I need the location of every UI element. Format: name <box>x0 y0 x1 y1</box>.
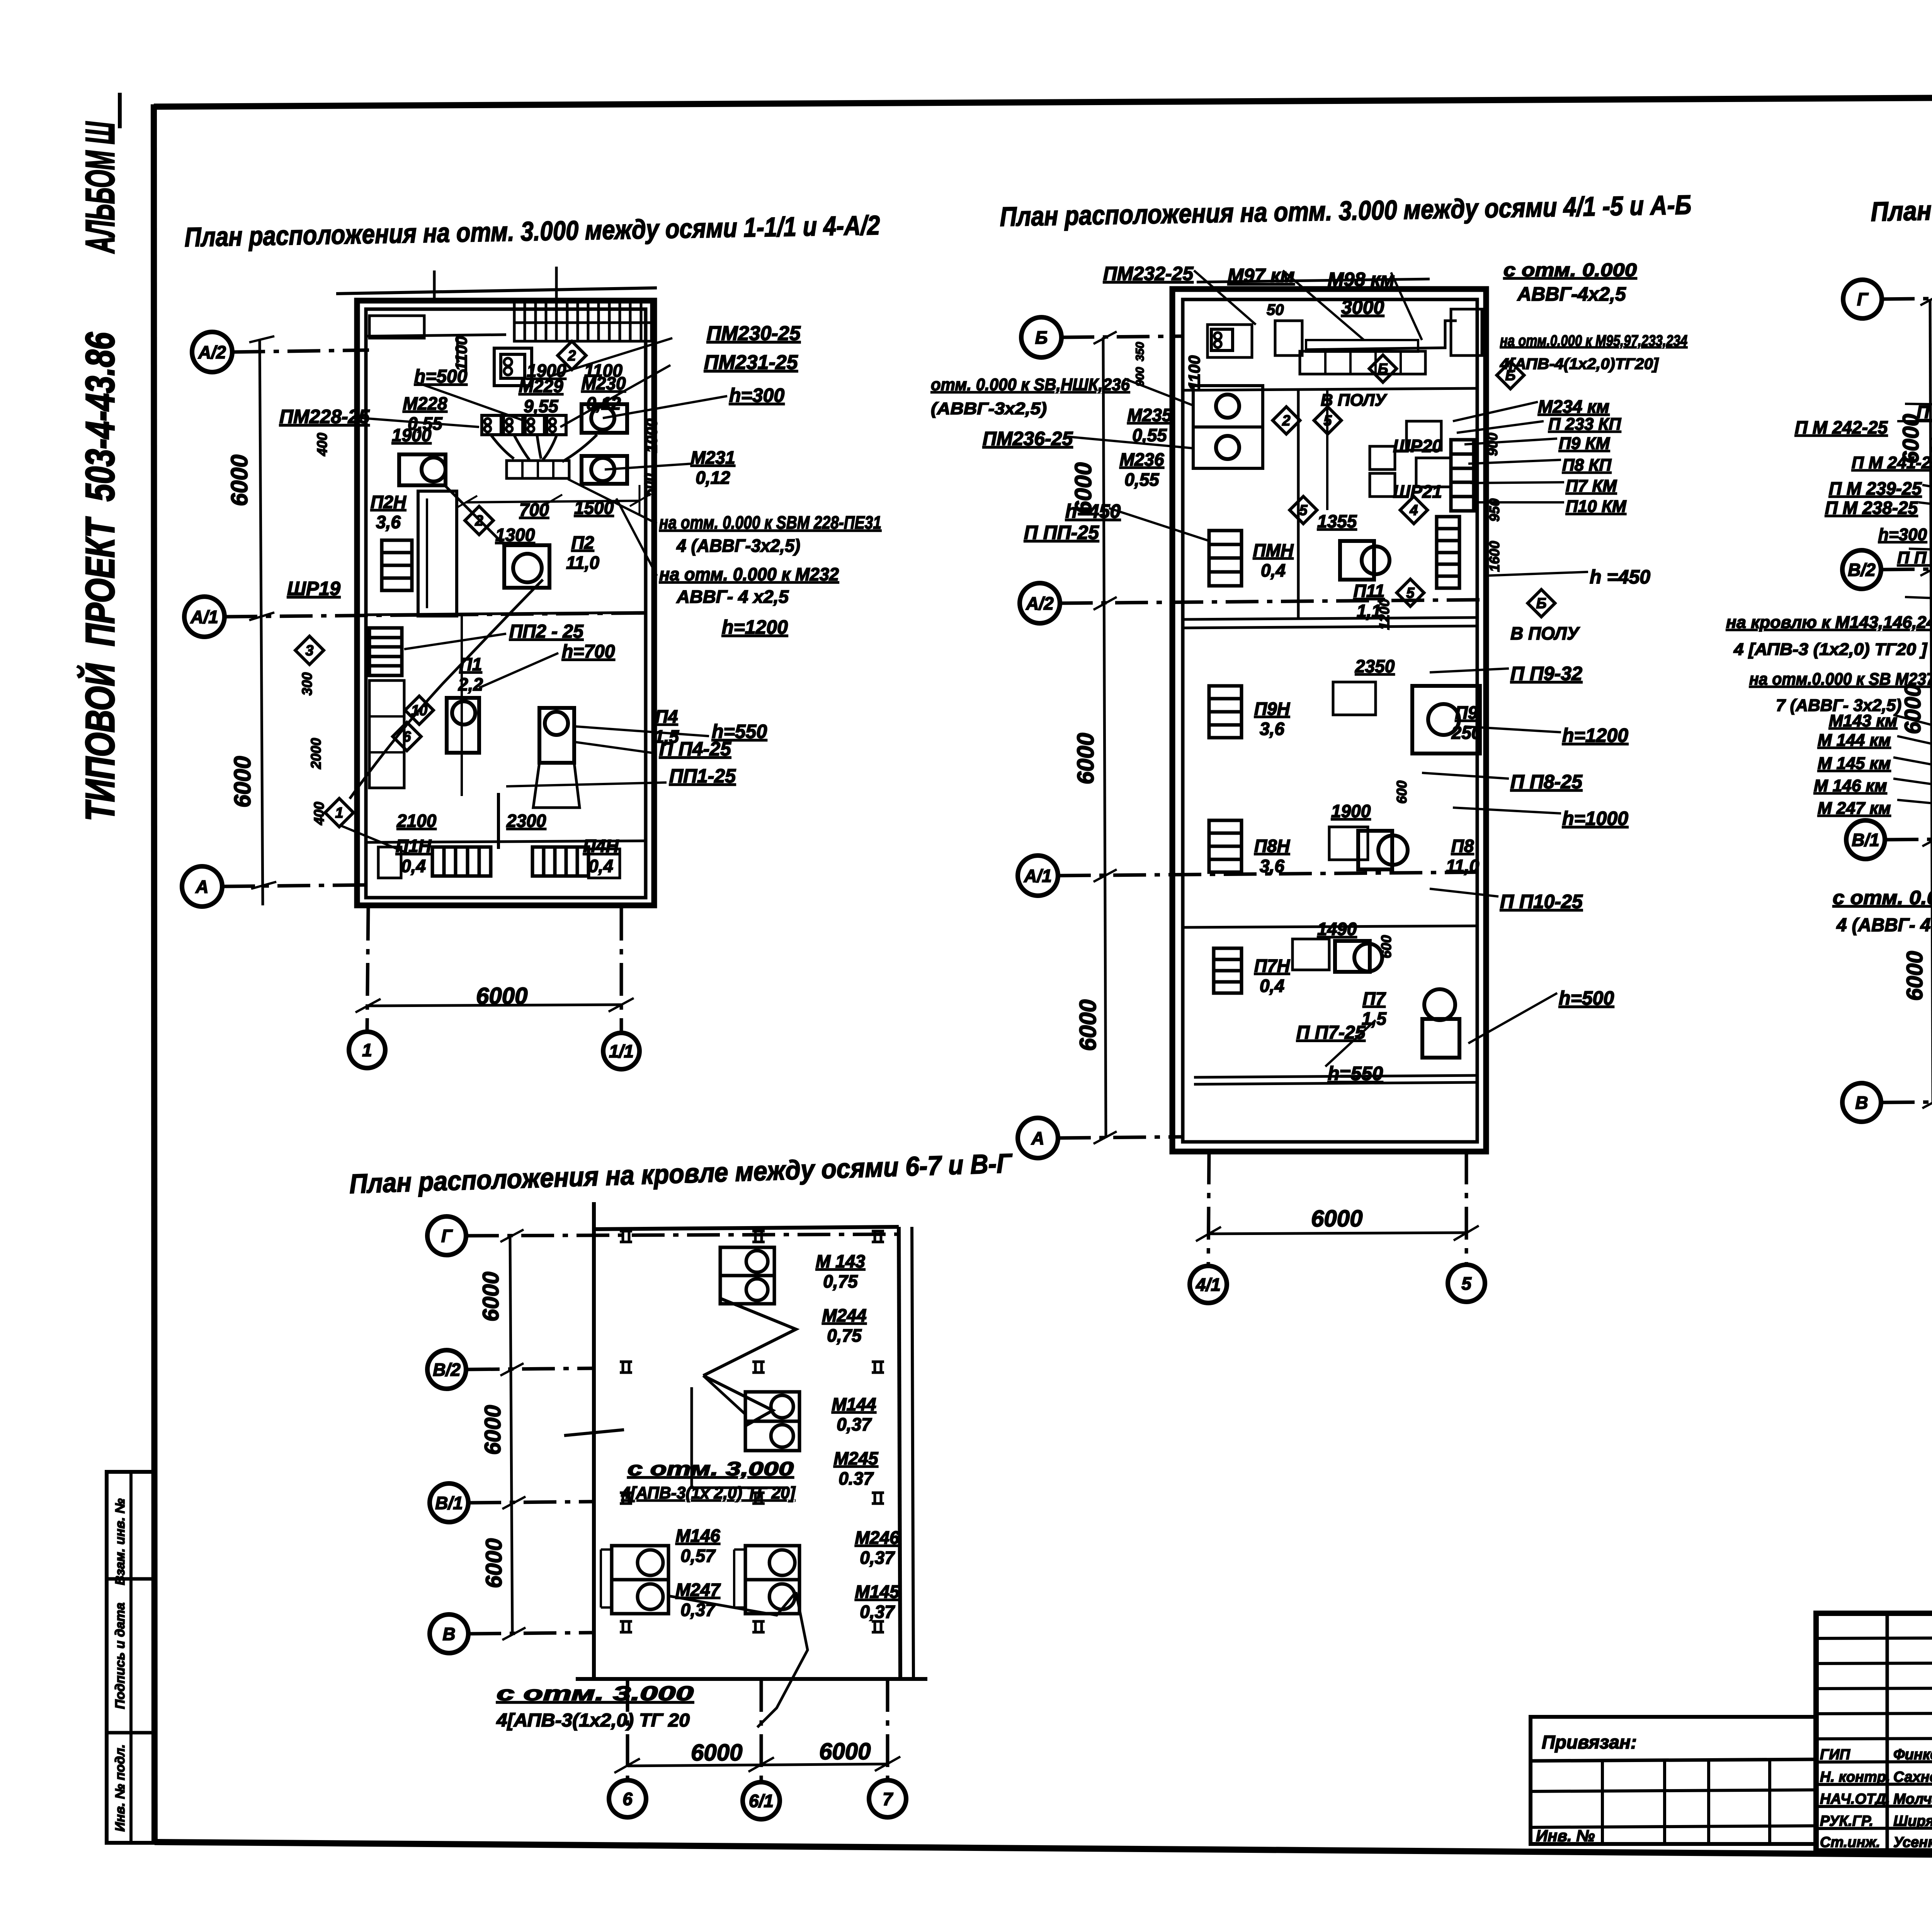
svg-text:600: 600 <box>1394 781 1410 804</box>
svg-text:1100: 1100 <box>452 336 470 371</box>
svg-text:М 247 км: М 247 км <box>1818 799 1891 818</box>
dim line vertical plan1 <box>260 340 263 905</box>
svg-text:План расположения на отм. 3.00: План расположения на отм. 3.000 между ос… <box>1000 190 1692 232</box>
svg-text:h=1200: h=1200 <box>722 616 788 638</box>
svg-text:0,55: 0,55 <box>1132 425 1167 445</box>
tb row line <box>1816 1784 1932 1784</box>
svg-text:М 144 км: М 144 км <box>1818 731 1891 750</box>
svg-text:300: 300 <box>299 672 315 696</box>
svg-text:2: 2 <box>567 348 576 364</box>
tb row line <box>1816 1828 1932 1829</box>
axis drop 7 roof <box>886 1679 889 1780</box>
axis circle A/2 <box>192 332 232 372</box>
roof anchor <box>620 1230 632 1233</box>
unit M231 <box>591 458 614 481</box>
axis line A p2 <box>1058 1137 1182 1138</box>
svg-text:4 [АПВ-3 (1х2,0) ТГ20 ]: 4 [АПВ-3 (1х2,0) ТГ20 ] <box>1733 640 1927 659</box>
inner wall p1 top <box>367 335 506 336</box>
right battery p2b <box>1437 517 1459 588</box>
axis drop 4/1 <box>1208 1152 1209 1267</box>
svg-text:6000: 6000 <box>1902 951 1927 1001</box>
svg-text:ПМ232-25: ПМ232-25 <box>1103 263 1194 284</box>
svg-text:Молчанова: Молчанова <box>1893 1791 1932 1807</box>
svg-text:П М 240-25: П М 240-25 <box>1917 402 1932 422</box>
svg-text:250: 250 <box>1451 723 1481 743</box>
roof anchor <box>620 1492 632 1494</box>
svg-text:0,4: 0,4 <box>1260 976 1284 996</box>
svg-text:900: 900 <box>1485 433 1500 456</box>
svg-text:11,0: 11,0 <box>1446 856 1480 876</box>
svg-text:Усенко: Усенко <box>1893 1834 1932 1851</box>
axis line A/1 p2 <box>1058 872 1486 876</box>
svg-text:1,5: 1,5 <box>1362 1009 1387 1029</box>
fan M228 <box>422 458 446 481</box>
svg-text:П М 241-25: П М 241-25 <box>1852 453 1932 472</box>
svg-text:6000: 6000 <box>1073 733 1099 784</box>
svg-text:1490: 1490 <box>1317 919 1357 939</box>
svg-text:В ПОЛУ: В ПОЛУ <box>1510 623 1580 643</box>
svg-text:1: 1 <box>362 1040 372 1060</box>
duct in floor <box>1300 351 1425 374</box>
roof bottom edge <box>576 1677 927 1681</box>
svg-text:с отм. 0.000: с отм. 0.000 <box>1833 887 1932 908</box>
svg-text:М144: М144 <box>832 1394 876 1414</box>
svg-text:Инв. № подл.: Инв. № подл. <box>113 1744 128 1832</box>
fan P9 <box>1428 704 1459 735</box>
svg-text:П8Н: П8Н <box>1254 836 1290 856</box>
svg-text:6000: 6000 <box>481 1538 507 1588</box>
svg-text:6: 6 <box>403 729 411 745</box>
svg-text:М234 км: М234 км <box>1538 396 1609 417</box>
bottom small box <box>378 847 401 878</box>
battery P8N <box>1209 820 1242 872</box>
roof anchor <box>752 1230 765 1233</box>
svg-text:П2Н: П2Н <box>371 492 406 512</box>
svg-text:М236: М236 <box>1119 449 1164 469</box>
svg-text:А/1: А/1 <box>1024 866 1052 886</box>
svg-text:М146: М146 <box>675 1526 720 1546</box>
tb row line <box>1816 1638 1932 1638</box>
axis circle 4/1 <box>1190 1266 1227 1303</box>
diamond 2 <box>558 341 586 370</box>
svg-text:П ПП-25: П ПП-25 <box>1024 522 1099 543</box>
svg-text:2: 2 <box>1282 413 1290 429</box>
roof anchor <box>752 1361 765 1363</box>
svg-text:АВВГ-4х2,5: АВВГ-4х2,5 <box>1517 283 1626 305</box>
svg-text:4[АПВ-3(1х2,0) ТГ 20: 4[АПВ-3(1х2,0) ТГ 20 <box>496 1710 690 1731</box>
axis circle V/2 <box>1842 550 1881 589</box>
unit M229 box <box>494 348 532 386</box>
svg-text:А/2: А/2 <box>1026 594 1054 614</box>
axis circle V <box>1842 1083 1881 1122</box>
plan1 wires <box>491 435 556 460</box>
axis line G roof <box>466 1234 900 1236</box>
svg-text:ШР21: ШР21 <box>1393 481 1442 502</box>
svg-text:1900: 1900 <box>1331 801 1371 821</box>
svg-text:(АВВГ-3х2,5): (АВВГ-3х2,5) <box>931 399 1047 418</box>
svg-text:950: 950 <box>1486 498 1502 522</box>
dim line bottom plan1 <box>368 1005 621 1006</box>
unit M230 <box>591 407 614 430</box>
svg-text:3,6: 3,6 <box>1260 719 1284 739</box>
svg-text:4[АПВ-4(1х2,0)ТГ20]: 4[АПВ-4(1х2,0)ТГ20] <box>1500 356 1659 373</box>
axis circle V/1 roof <box>430 1483 468 1522</box>
plan1 building outer walls <box>357 301 654 905</box>
frame left border <box>154 104 155 1842</box>
axis circle A/1 p2 <box>1018 856 1058 896</box>
svg-text:с отм. 0.000: с отм. 0.000 <box>1503 260 1637 281</box>
svg-text:4 (АВВГ- 4 х2,5): 4 (АВВГ- 4 х2,5) <box>1836 915 1932 936</box>
svg-text:500: 500 <box>641 473 657 497</box>
svg-text:П8: П8 <box>1451 836 1474 856</box>
fan P11 <box>1362 546 1389 574</box>
axis circle A/1 <box>184 597 224 637</box>
axis line B <box>1061 336 1182 337</box>
roof anchor <box>872 1492 884 1494</box>
svg-text:0,37: 0,37 <box>860 1548 895 1568</box>
roof anchor <box>620 1361 632 1363</box>
axis circle B <box>1021 317 1061 357</box>
svg-text:0,57: 0,57 <box>680 1546 716 1566</box>
svg-text:400: 400 <box>311 802 327 825</box>
dim line vertical roof <box>510 1236 512 1634</box>
svg-text:В: В <box>442 1624 455 1644</box>
axis line V roof <box>468 1633 595 1634</box>
svg-text:РУК.ГР.: РУК.ГР. <box>1820 1813 1873 1829</box>
svg-text:А/1: А/1 <box>190 607 218 627</box>
svg-text:АВВГ- 4 х2,5: АВВГ- 4 х2,5 <box>676 587 789 607</box>
svg-text:0,55: 0,55 <box>1124 469 1160 490</box>
svg-text:5: 5 <box>1461 1274 1472 1294</box>
stair comb plan1 <box>514 301 651 341</box>
svg-text:11,0: 11,0 <box>566 553 600 573</box>
tb row line <box>1816 1738 1932 1739</box>
tb row line <box>1816 1688 1932 1689</box>
svg-text:6000: 6000 <box>1075 1000 1101 1051</box>
svg-text:В ПОЛУ: В ПОЛУ <box>1321 391 1388 410</box>
right battery p2a <box>1451 440 1474 511</box>
left margin inventory strip <box>107 1472 155 1843</box>
svg-text:АЛЬБОМ Ш: АЛЬБОМ Ш <box>78 121 123 254</box>
svg-text:на отм.0.000 к М95,97,233,234: на отм.0.000 к М95,97,233,234 <box>1500 332 1687 349</box>
svg-text:П11: П11 <box>1354 581 1385 601</box>
top-left box p2 <box>1207 325 1252 357</box>
frame top border <box>154 95 1932 107</box>
svg-text:3,6: 3,6 <box>1260 856 1284 876</box>
ShR19 comb <box>369 628 402 675</box>
svg-text:ПМ228-25: ПМ228-25 <box>279 406 370 427</box>
dim line bottom p2 <box>1209 1233 1466 1234</box>
dim line bottom roof <box>628 1764 888 1766</box>
svg-text:h=1200: h=1200 <box>1562 725 1628 746</box>
partition at A/1 <box>366 612 646 615</box>
axis circle V/1 <box>1846 820 1885 859</box>
axis line V/1 <box>1886 839 1932 840</box>
roof right edge <box>899 1227 900 1679</box>
bus row <box>507 461 569 478</box>
privyazan outer <box>1531 1717 1816 1844</box>
unit M235 <box>1193 386 1263 427</box>
svg-text:6000: 6000 <box>691 1740 742 1766</box>
privyazan col 3 <box>1707 1761 1710 1844</box>
svg-text:0.37: 0.37 <box>838 1468 874 1488</box>
axis circle A <box>182 866 222 907</box>
svg-text:4/1: 4/1 <box>1196 1275 1221 1295</box>
axis line A <box>222 885 371 886</box>
terminal row <box>482 415 501 435</box>
axis circle 1/1 <box>603 1033 639 1069</box>
plan2 building outer walls <box>1172 289 1486 1152</box>
axis line V/2 <box>1882 566 1932 570</box>
svg-text:Г: Г <box>1857 289 1869 310</box>
roof top edge <box>594 1227 899 1229</box>
partition low <box>366 841 646 842</box>
axis line V/2 roof <box>467 1368 595 1369</box>
roof right edge 2 <box>912 1227 913 1679</box>
svg-text:6: 6 <box>622 1789 633 1809</box>
svg-text:h=300: h=300 <box>1878 525 1927 544</box>
axis drop 5 <box>1465 1152 1468 1266</box>
svg-text:В/1: В/1 <box>1852 830 1879 850</box>
svg-text:П7Н: П7Н <box>1254 956 1290 976</box>
privyazan col 4 <box>1768 1761 1771 1844</box>
svg-text:ГИП: ГИП <box>1820 1747 1850 1763</box>
leader PM228 <box>352 417 479 427</box>
svg-text:М 145 км: М 145 км <box>1818 754 1891 773</box>
battery P2N <box>382 540 412 590</box>
svg-text:6000: 6000 <box>478 1272 503 1322</box>
axis line V/1 roof <box>468 1502 595 1503</box>
svg-text:ПП1-25: ПП1-25 <box>669 765 736 787</box>
battery PMN <box>1209 531 1242 586</box>
svg-text:3: 3 <box>305 643 313 659</box>
privyazan row 2 <box>1531 1826 1816 1827</box>
svg-text:М228: М228 <box>403 393 447 413</box>
svg-text:П М 239-25: П М 239-25 <box>1829 478 1922 498</box>
svg-text:h=700: h=700 <box>562 641 615 662</box>
cabinet top-left <box>369 316 424 338</box>
svg-text:П7: П7 <box>1363 988 1386 1009</box>
axis circle 6 roof <box>609 1780 646 1817</box>
svg-text:П П8-25: П П8-25 <box>1510 771 1583 793</box>
svg-text:М 146 км: М 146 км <box>1814 776 1887 795</box>
svg-text:Б: Б <box>1378 361 1388 377</box>
svg-text:План расположения на отм. 3.00: План расположения на отм. 3.000 между ос… <box>184 210 880 252</box>
leader PM230 <box>549 338 672 377</box>
roof left edge <box>592 1202 596 1679</box>
svg-text:4: 4 <box>1409 502 1418 519</box>
svg-text:0,37: 0,37 <box>837 1414 872 1434</box>
svg-text:h=1000: h=1000 <box>1562 808 1628 829</box>
roof anchor <box>872 1620 884 1623</box>
svg-text:М230: М230 <box>581 373 626 393</box>
corner unit <box>1451 309 1482 356</box>
svg-text:Н. контр.: Н. контр. <box>1820 1769 1890 1785</box>
svg-text:5: 5 <box>1323 413 1332 429</box>
svg-text:на отм.0.000 к SВ М237+М243: на отм.0.000 к SВ М237+М243 <box>1749 670 1932 689</box>
axis line G <box>1882 298 1932 299</box>
svg-text:М235: М235 <box>1127 405 1172 425</box>
svg-text:350: 350 <box>1134 342 1146 361</box>
svg-text:0,12: 0,12 <box>696 468 730 488</box>
svg-text:М 143: М 143 <box>816 1251 865 1271</box>
fan P7 <box>1354 944 1382 971</box>
unit M236 <box>1193 427 1263 468</box>
svg-text:h=300: h=300 <box>729 384 784 406</box>
axis circle A p2 <box>1018 1118 1058 1158</box>
bottom comb 1 <box>432 847 491 876</box>
svg-text:П4: П4 <box>655 706 678 726</box>
roof line above <box>1197 279 1430 282</box>
axis circle G roof <box>427 1216 466 1255</box>
dim line room p1 <box>466 501 639 502</box>
axis circle 5 <box>1448 1265 1485 1302</box>
svg-text:Ст.инж.: Ст.инж. <box>1820 1834 1880 1851</box>
axis circle 1 <box>349 1032 385 1068</box>
svg-text:П10 КМ: П10 КМ <box>1566 497 1627 516</box>
svg-text:0,37: 0,37 <box>680 1600 716 1620</box>
svg-text:600: 600 <box>1378 935 1394 958</box>
svg-text:М247: М247 <box>675 1580 721 1600</box>
svg-text:6000: 6000 <box>819 1738 871 1764</box>
svg-text:П П7-25: П П7-25 <box>1296 1022 1366 1043</box>
axis drop 6/1 roof <box>760 1679 763 1782</box>
svg-text:Взам. инв. №: Взам. инв. № <box>113 1499 128 1585</box>
svg-text:2100: 2100 <box>396 811 437 831</box>
svg-text:1200: 1200 <box>1376 599 1392 630</box>
svg-text:0,4: 0,4 <box>588 856 613 876</box>
svg-text:М244: М244 <box>822 1305 866 1325</box>
ShR20 box <box>1406 421 1441 450</box>
axis circle V roof <box>430 1614 468 1653</box>
roof anchor <box>620 1620 632 1623</box>
axis circle 7 roof <box>869 1780 906 1817</box>
svg-text:h=500: h=500 <box>1559 987 1614 1009</box>
partition p2 a <box>1183 388 1477 390</box>
axis circle V/2 roof <box>427 1350 466 1389</box>
svg-text:1355: 1355 <box>1317 511 1357 531</box>
svg-text:ПМ230-25: ПМ230-25 <box>707 322 801 345</box>
svg-text:Г: Г <box>441 1226 453 1246</box>
battery P9N <box>1209 686 1242 738</box>
svg-text:0,75: 0,75 <box>827 1325 862 1345</box>
axis circle G <box>1843 280 1882 318</box>
partition p2 b <box>1183 617 1477 619</box>
svg-text:6000: 6000 <box>1900 684 1925 734</box>
svg-text:ПП2 - 25: ПП2 - 25 <box>509 621 584 642</box>
svg-text:П П9-32: П П9-32 <box>1510 663 1582 684</box>
unit P4 <box>545 712 568 735</box>
svg-text:ПМ231-25: ПМ231-25 <box>704 351 798 374</box>
bottom comb 2 <box>532 847 588 876</box>
svg-text:2000: 2000 <box>308 738 324 769</box>
svg-text:П М 238-25: П М 238-25 <box>1825 498 1918 518</box>
dim line vertical plan3 <box>1930 299 1932 1102</box>
axis drop line 1 <box>367 908 368 1032</box>
privyazan col 2 <box>1663 1761 1666 1844</box>
svg-text:Подпись и дата: Подпись и дата <box>113 1602 128 1709</box>
svg-text:Б: Б <box>1536 595 1547 612</box>
svg-text:ПМ236-25: ПМ236-25 <box>983 428 1073 449</box>
svg-text:на кровлю к М143,146,244,245: на кровлю к М143,146,244,245 <box>1726 613 1932 632</box>
privyazan row 1 <box>1531 1759 1816 1761</box>
battery P7N <box>1214 948 1242 993</box>
roof fan M144/M245 <box>745 1392 799 1421</box>
privyazan col 1 <box>1601 1761 1604 1844</box>
svg-text:ШР19: ШР19 <box>287 578 340 599</box>
svg-text:1900: 1900 <box>392 425 432 445</box>
svg-text:2,2: 2,2 <box>458 674 483 694</box>
svg-text:П4Н: П4Н <box>583 836 619 856</box>
svg-text:Финкер: Финкер <box>1893 1747 1932 1763</box>
fan P2 <box>513 554 542 582</box>
fan P8 <box>1378 835 1408 865</box>
svg-text:4 (АВВГ-3х2,5): 4 (АВВГ-3х2,5) <box>676 536 800 556</box>
tb row line <box>1816 1713 1932 1714</box>
roof fan M143/M244 <box>720 1247 774 1276</box>
tall cabinet <box>418 491 457 616</box>
svg-text:М145: М145 <box>855 1582 900 1602</box>
svg-text:ШР20: ШР20 <box>1393 436 1442 456</box>
svg-text:2300: 2300 <box>506 811 546 831</box>
svg-text:900: 900 <box>1134 367 1146 386</box>
svg-text:h =450: h =450 <box>1590 566 1650 588</box>
svg-text:3,6: 3,6 <box>376 512 401 532</box>
svg-text:50: 50 <box>1267 301 1284 318</box>
svg-text:П2: П2 <box>571 532 594 553</box>
partition vertical <box>497 793 500 849</box>
roof fan M146/M247 <box>612 1546 668 1580</box>
dim line vertical plan2 <box>1103 337 1106 1138</box>
unit P1 <box>452 701 475 725</box>
svg-text:П7 КМ: П7 КМ <box>1566 476 1617 495</box>
tb col 1 <box>1886 1613 1889 1851</box>
wall stub top <box>433 270 436 301</box>
svg-text:М143 км: М143 км <box>1829 711 1897 730</box>
svg-text:7: 7 <box>883 1789 893 1809</box>
svg-text:Ширяева: Ширяева <box>1893 1813 1932 1829</box>
roof anchor <box>872 1230 884 1233</box>
svg-text:ТИПОВОЙ ПРОЕКТ 503-4-43.86: ТИПОВОЙ ПРОЕКТ 503-4-43.86 <box>77 332 123 821</box>
axis circle A/2 p2 <box>1020 583 1060 623</box>
svg-text:0,12: 0,12 <box>586 393 621 413</box>
privyazan row mid <box>1531 1790 1816 1791</box>
svg-text:П 233 КП: П 233 КП <box>1548 415 1622 434</box>
svg-text:П М 242-25: П М 242-25 <box>1795 417 1888 437</box>
svg-text:М98 км: М98 км <box>1328 269 1395 290</box>
svg-text:на отм. 0.000 к М232: на отм. 0.000 к М232 <box>659 564 839 584</box>
axis line A/2 <box>232 350 369 352</box>
fan P10 <box>1424 989 1455 1020</box>
svg-text:0,4: 0,4 <box>401 856 426 876</box>
svg-text:1: 1 <box>335 805 343 821</box>
svg-text:с отм. 3,000: с отм. 3,000 <box>628 1458 794 1480</box>
svg-text:НАЧ.ОТД.: НАЧ.ОТД. <box>1820 1791 1890 1807</box>
svg-text:П9: П9 <box>1455 703 1478 723</box>
svg-text:1600: 1600 <box>1486 541 1502 572</box>
svg-text:В/1: В/1 <box>435 1493 463 1513</box>
svg-text:П П10-25: П П10-25 <box>1500 891 1583 912</box>
svg-text:1000: 1000 <box>643 418 660 453</box>
tb row line <box>1816 1761 1932 1762</box>
svg-text:В: В <box>1855 1093 1868 1113</box>
svg-text:4[АПВ-3(1х 2,0) ТГ 20]: 4[АПВ-3(1х 2,0) ТГ 20] <box>621 1483 796 1502</box>
svg-text:6000: 6000 <box>476 983 527 1009</box>
svg-text:1/1: 1/1 <box>609 1041 634 1061</box>
partition p2 c <box>1183 926 1477 927</box>
partition p2 vert <box>1326 390 1328 510</box>
svg-text:h=450: h=450 <box>1065 500 1121 522</box>
